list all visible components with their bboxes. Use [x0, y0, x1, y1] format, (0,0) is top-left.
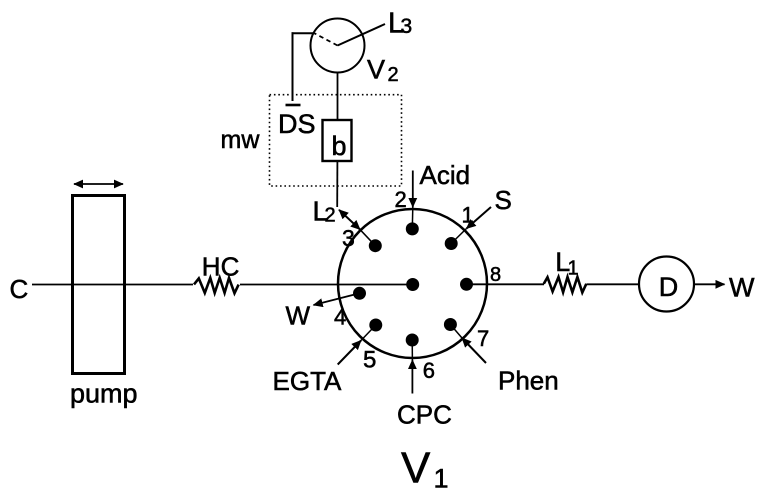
svg-text:DS: DS [278, 109, 316, 139]
svg-text:D: D [659, 272, 679, 302]
svg-text:6: 6 [423, 358, 435, 383]
svg-text:1: 1 [462, 203, 474, 228]
svg-text:8: 8 [490, 264, 501, 286]
svg-text:3: 3 [401, 15, 413, 38]
svg-text:1: 1 [568, 258, 579, 280]
svg-text:Phen: Phen [498, 366, 559, 396]
svg-text:2: 2 [325, 205, 336, 227]
svg-text:C: C [10, 274, 29, 304]
svg-text:4: 4 [334, 305, 346, 330]
svg-text:5: 5 [363, 346, 376, 373]
svg-text:1: 1 [434, 464, 449, 494]
svg-text:EGTA: EGTA [273, 366, 343, 396]
svg-text:W: W [286, 301, 311, 331]
svg-text:CPC: CPC [397, 400, 452, 430]
svg-text:mw: mw [221, 126, 261, 154]
svg-text:Acid: Acid [420, 160, 471, 190]
svg-text:W: W [729, 273, 755, 303]
svg-text:2: 2 [388, 64, 399, 86]
svg-text:pump: pump [70, 379, 138, 409]
svg-text:3: 3 [342, 225, 355, 251]
svg-text:V: V [367, 55, 385, 85]
svg-text:2: 2 [395, 187, 407, 212]
svg-text:HC: HC [202, 252, 240, 282]
svg-text:7: 7 [477, 326, 489, 351]
svg-text:b: b [331, 131, 346, 161]
svg-text:V: V [401, 444, 431, 493]
svg-text:S: S [495, 185, 512, 215]
